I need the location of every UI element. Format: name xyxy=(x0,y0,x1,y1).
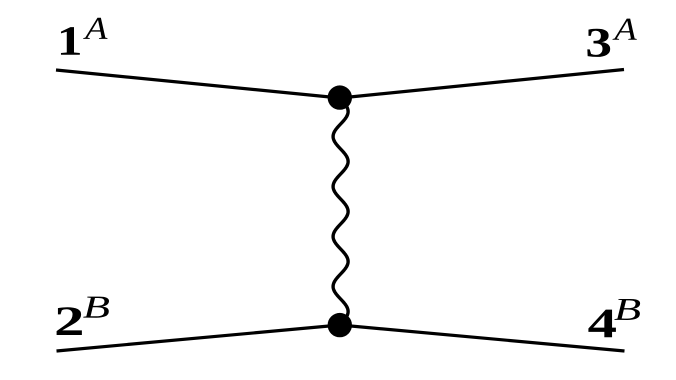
photon propagator (vertical wavy line between vertices) xyxy=(333,98,348,325)
external leg: outgoing particle line 3 xyxy=(340,70,624,99)
superscript B of particle 2 xyxy=(83,297,109,318)
superscript A of particle 3 xyxy=(612,19,636,40)
label digit 1 (particle 1) xyxy=(61,27,80,55)
label digit 2 (particle 2) xyxy=(57,307,82,335)
vertex V2 (bottom interaction dot) xyxy=(328,313,352,337)
label digit 3 (particle 3) xyxy=(587,29,610,57)
external leg: outgoing particle line 4 xyxy=(340,325,625,351)
superscript B of particle 4 xyxy=(614,299,640,320)
external leg: incoming particle line 1 xyxy=(56,70,340,98)
external leg: incoming particle line 2 xyxy=(57,325,341,351)
label digit 4 (particle 4) xyxy=(588,310,616,338)
vertex V1 (top interaction dot) xyxy=(328,85,352,109)
superscript A of particle 1 xyxy=(83,18,107,39)
